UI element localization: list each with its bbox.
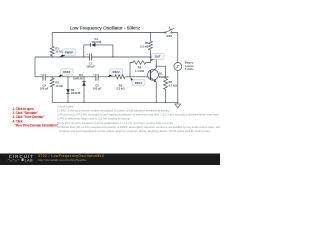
wire rail2 (35, 56, 156, 58)
capacitor C2 (96, 74, 98, 81)
svg-text:a higher-end load impedance on: a higher-end load impedance on the outpu… (59, 129, 211, 133)
diode D4 (83, 77, 85, 103)
svg-text:2N3904: 2N3904 (159, 75, 169, 79)
node flag OSC3 (58, 73, 63, 77)
logo squiggle (8, 159, 20, 161)
transistor Q1 (148, 69, 159, 80)
svg-text:100 µF: 100 µF (40, 87, 49, 91)
svg-text:Low Frequency Oscillator - 50k: Low Frequency Oscillator - 50kHz (70, 25, 141, 30)
svg-text:100 µF: 100 µF (86, 65, 95, 69)
svg-text:1N4148: 1N4148 (73, 77, 83, 81)
ground (175, 102, 181, 108)
svg-text:"Run Time-Domain Simulation": "Run Time-Domain Simulation" (15, 123, 59, 127)
svg-text:PWUP: PWUP (65, 51, 73, 54)
junction dots (52, 32, 179, 103)
logo LAB (22, 159, 24, 161)
wire right vertical upper (177, 33, 179, 63)
red instructions (13, 107, 59, 127)
resistor R6 (156, 66, 167, 102)
svg-text:+: + (93, 73, 95, 76)
diode D1 bypass loop (84, 45, 113, 57)
resistor R1 (50, 33, 54, 58)
svg-text:+: + (87, 53, 89, 56)
resistor R5 (148, 33, 152, 58)
node flag OUT (150, 57, 155, 61)
svg-text:OSC2: OSC2 (113, 71, 121, 74)
svg-text:2.2 kΩ: 2.2 kΩ (140, 44, 149, 48)
svg-text:OSC3: OSC3 (63, 71, 71, 74)
svg-text:10 kΩ: 10 kΩ (55, 84, 63, 88)
svg-text:2.2 kΩ: 2.2 kΩ (116, 87, 125, 91)
resistor R2 (50, 77, 54, 103)
capacitor C1 (89, 54, 91, 61)
wire bottom rail (52, 101, 178, 103)
capacitor C3 (43, 74, 45, 81)
svg-text:LAB: LAB (25, 158, 34, 162)
svg-text:1.1 MΩ: 1.1 MΩ (135, 69, 145, 73)
svg-text:+: + (40, 73, 42, 76)
node flag OSC1 (130, 78, 134, 83)
svg-text:4.7 kΩ: 4.7 kΩ (169, 83, 178, 87)
svg-text:1N4148: 1N4148 (71, 91, 81, 95)
svg-text:1N4148: 1N4148 (91, 40, 101, 44)
footer bar (0, 154, 220, 166)
svg-text:http://circuitlab.com/c/e3srp5: http://circuitlab.com/c/e3srp5yqc8w (38, 158, 87, 162)
svg-text:5 volts: 5 volts (185, 67, 194, 71)
svg-text:D4: D4 (79, 73, 83, 77)
circuit notes (57, 104, 221, 133)
resistor R4 feedback (130, 57, 150, 77)
wire left branch down (34, 57, 36, 77)
node flag PWUP (59, 54, 65, 58)
wire top rail (52, 32, 165, 34)
svg-text:OUT: OUT (155, 56, 161, 59)
resistor R3 (115, 75, 125, 79)
svg-text:Q1: Q1 (159, 72, 163, 76)
node flag OSC2 (108, 73, 113, 77)
svg-text:SW1: SW1 (166, 34, 172, 38)
svg-text:100 µF: 100 µF (93, 87, 102, 91)
wire right vertical lower (177, 70, 179, 102)
switch SW1 (165, 27, 175, 34)
wire rail3 (35, 76, 151, 78)
svg-text:OSC1: OSC1 (135, 82, 143, 85)
voltage source V1 step (174, 63, 182, 71)
wire switch to right corner (172, 32, 178, 34)
diode D2 (67, 77, 69, 103)
